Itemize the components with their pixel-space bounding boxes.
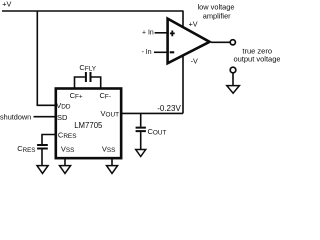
wire VSS right pin	[111, 158, 113, 165]
wire CRES pin leg	[42, 135, 55, 145]
wire -V drop to VOUT net	[182, 56, 184, 114]
capacitor COUT	[136, 128, 146, 132]
wire VSS left pin	[64, 158, 66, 165]
wire CFLY left leg	[75, 77, 85, 89]
op-amp noninverting input symbol +	[170, 31, 175, 37]
capacitor CRES	[37, 145, 48, 149]
svg-text:+ In: + In	[142, 29, 154, 36]
wire +V drop to op-amp V+	[182, 11, 184, 28]
svg-text:- In: - In	[142, 49, 152, 56]
svg-text:amplifier: amplifier	[203, 12, 231, 21]
svg-text:COUT: COUT	[148, 127, 167, 137]
IC U2 LM7705	[56, 89, 121, 159]
wire - In stub	[154, 51, 167, 53]
svg-text:+V: +V	[2, 0, 11, 9]
svg-text:CFLY: CFLY	[79, 63, 96, 73]
svg-text:+V: +V	[189, 20, 198, 29]
svg-text:-0.23V: -0.23V	[157, 104, 181, 113]
ground (CRES)	[37, 166, 48, 174]
capacitor CFLY	[86, 72, 91, 82]
wire +V branch to VDD pin	[37, 11, 55, 105]
wire VOUT net (-0.23V)	[121, 112, 183, 114]
svg-text:CRES: CRES	[17, 144, 35, 154]
terminal reference circle	[230, 67, 236, 73]
svg-text:low voltage: low voltage	[198, 3, 235, 12]
wire COUT tap	[140, 113, 142, 126]
wire shutdown to SD pin	[34, 116, 56, 118]
terminal output circle	[230, 40, 235, 45]
wire CRES to ground	[41, 150, 43, 166]
svg-text:LM7705: LM7705	[74, 121, 103, 130]
svg-text:SD: SD	[57, 113, 68, 122]
wire op-amp output	[211, 41, 230, 43]
svg-text:-V: -V	[191, 57, 198, 66]
ground (output reference)	[227, 86, 240, 94]
op-amp U1	[168, 19, 210, 64]
wire +V rail	[2, 10, 183, 12]
ground (VSS right)	[107, 166, 118, 174]
ground (VSS left)	[60, 166, 71, 174]
svg-text:shutdown: shutdown	[0, 112, 31, 121]
wire CFLY right leg	[92, 77, 101, 89]
wire reference terminal to ground	[232, 73, 234, 86]
ground (COUT)	[136, 150, 146, 157]
svg-text:output voltage: output voltage	[233, 55, 280, 64]
op-amp inverting input symbol -	[170, 51, 175, 53]
wire + In stub	[155, 32, 167, 34]
wire COUT to ground	[140, 132, 142, 149]
